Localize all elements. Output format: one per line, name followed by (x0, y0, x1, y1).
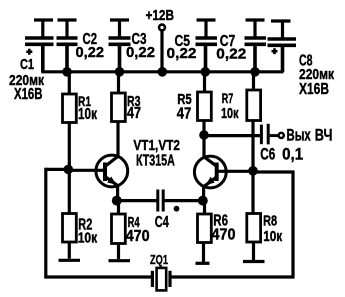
node rail-supply (158, 67, 168, 77)
svg-text:0,22: 0,22 (126, 44, 155, 61)
svg-text:Х16В: Х16В (299, 81, 329, 98)
capacitor C4 (158, 190, 163, 212)
capacitor C6 (261, 124, 278, 145)
label C2 0,22 (76, 31, 105, 61)
label +12В (146, 7, 175, 24)
ground below R8 (243, 260, 265, 263)
label Вых ВЧ (287, 127, 333, 145)
ground above C1 (34, 20, 53, 37)
wire C4 to VT2 emitter (165, 199, 203, 202)
svg-text:R7: R7 (222, 91, 234, 106)
label R4 470 (126, 214, 150, 245)
resistor R3 (112, 72, 126, 158)
resistor R5 (198, 72, 212, 159)
ground above C8 (271, 21, 291, 38)
wire right loop (172, 171, 295, 279)
wire output line (204, 134, 260, 137)
svg-text:10к: 10к (78, 106, 97, 123)
resistor R6 (198, 201, 212, 262)
label R3 47 (127, 94, 141, 122)
wire VT1 base lead (66, 169, 105, 172)
crystal ZQ1 (152, 268, 170, 291)
power terminal +12V (159, 25, 165, 71)
label C5 0,22 (167, 33, 197, 62)
wire VT2 base lead (218, 170, 255, 173)
label C1 220мк Х16В (9, 57, 45, 103)
label C3 0,22 (126, 31, 155, 61)
svg-text:0,1: 0,1 (282, 146, 303, 164)
label VT1,VT2 КТ315А (133, 137, 180, 169)
svg-text:470: 470 (212, 227, 236, 244)
svg-text:R8: R8 (263, 213, 277, 230)
svg-text:Х16В: Х16В (14, 86, 43, 103)
capacitor C8 (268, 39, 297, 72)
capacitor C1 (25, 38, 54, 72)
ground above C7 (246, 20, 265, 37)
ground above C2 (58, 20, 77, 37)
capacitor C2 (57, 38, 78, 71)
node rail-C5-R5 (201, 67, 211, 77)
svg-text:47: 47 (177, 106, 192, 123)
node VT2 emitter (198, 196, 208, 206)
node VT2 base R7 R8 (248, 166, 258, 176)
label R7 10к (221, 91, 239, 122)
transistor VT1 (96, 155, 128, 201)
label R6 470 (212, 213, 236, 244)
svg-text:ВЧ: ВЧ (315, 127, 333, 145)
label R2 10к (78, 216, 98, 246)
svg-text:ZQ1: ZQ1 (150, 252, 168, 267)
label C6 0,1 (260, 146, 303, 164)
svg-text:C1: C1 (20, 57, 34, 73)
label R1 10к (78, 93, 97, 123)
transistor VT2 (194, 156, 226, 201)
label ZQ1 (150, 252, 168, 267)
svg-text:10к: 10к (221, 105, 239, 122)
output terminal Вых ВЧ (279, 133, 284, 138)
svg-text:КТ315А: КТ315А (136, 152, 175, 169)
svg-text:0,22: 0,22 (167, 45, 197, 62)
wire left loop (44, 168, 151, 277)
ground below R2 (59, 259, 81, 262)
resistor R4 (112, 201, 126, 259)
svg-text:C4: C4 (155, 214, 169, 231)
resistor R2 (63, 170, 77, 259)
node VT2 collector / output (199, 130, 209, 140)
svg-text:C6: C6 (260, 146, 275, 164)
ground above C3 (110, 20, 129, 37)
label C8 220мк Х16В (299, 52, 334, 98)
svg-text:0,22: 0,22 (216, 45, 246, 62)
svg-text:470: 470 (126, 228, 150, 245)
label R5 47 (177, 92, 192, 122)
capacitor C5 (196, 38, 218, 71)
ground above C5 (197, 20, 216, 37)
ground below R6 (196, 262, 210, 265)
node rail-C3-R3 (115, 67, 125, 77)
capacitor C3 (109, 38, 131, 71)
svg-text:47: 47 (127, 105, 141, 122)
svg-text:Вых: Вых (287, 127, 312, 145)
label C7 0,22 (216, 33, 246, 62)
resistor R7 (247, 72, 261, 169)
svg-text:10к: 10к (78, 231, 98, 247)
node rail-C7-R7 (250, 67, 260, 77)
resistor R8 (247, 171, 261, 260)
svg-text:10к: 10к (263, 228, 282, 245)
svg-text:0,22: 0,22 (76, 44, 105, 61)
node VT1 emitter (112, 196, 122, 206)
capacitor C7 (245, 38, 267, 71)
ground below R4 (109, 259, 131, 262)
label C4 * (155, 206, 180, 231)
node rail-C2-R1 (62, 67, 72, 77)
label R8 10к (263, 213, 282, 246)
wire power rail (41, 70, 283, 73)
node VT1 base (64, 165, 74, 175)
resistor R1 (63, 72, 77, 168)
wire VT1 emitter to C4 (117, 199, 157, 202)
svg-text:+12В: +12В (146, 7, 175, 24)
